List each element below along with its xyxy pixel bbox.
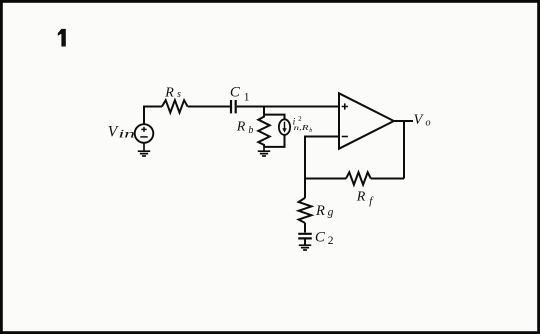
wire node to noise source top [264, 115, 285, 120]
ground under Vin [138, 143, 150, 156]
wire junction down to Rg [304, 179, 306, 198]
svg-text:2: 2 [328, 235, 334, 247]
ground under C2 [299, 245, 311, 250]
svg-text:b: b [309, 128, 312, 134]
svg-text:s: s [177, 89, 181, 100]
wire output down to feedback [403, 121, 405, 179]
resistor Rb [258, 115, 269, 147]
svg-text:R: R [356, 189, 366, 204]
op-amp minus input marker [342, 136, 348, 138]
noise current source i2n,Rb [279, 119, 290, 135]
svg-text:C: C [230, 85, 241, 101]
svg-text:g: g [328, 207, 334, 219]
wire Rf to output drop [371, 178, 404, 180]
svg-text:V: V [108, 124, 119, 141]
wire Vin top to Rs [144, 107, 162, 125]
wire minus input [305, 137, 339, 179]
svg-text:in: in [118, 126, 135, 140]
svg-text:n,R: n,R [294, 123, 309, 132]
svg-text:R: R [164, 85, 174, 100]
noise source arrow [284, 122, 286, 130]
wire feedback left segment [305, 178, 346, 180]
svg-text:R: R [236, 119, 246, 134]
capacitor C1 plates [231, 100, 236, 113]
op-amp U1 [339, 93, 394, 148]
wire C1 to op-amp + input [237, 106, 339, 108]
resistor Rs [162, 100, 188, 112]
wire op-amp output [394, 120, 413, 122]
voltage source Vin [135, 124, 154, 143]
svg-text:C: C [315, 229, 326, 245]
op-amp plus input marker [342, 103, 348, 109]
svg-text:1: 1 [244, 91, 250, 103]
capacitor C2 plates [298, 234, 312, 239]
wire Rs to C1 [188, 106, 230, 108]
Vin minus bar [140, 136, 147, 138]
wire C2 to ground [304, 240, 306, 245]
svg-text:R: R [315, 203, 325, 219]
svg-text:o: o [425, 118, 430, 129]
ground under Rb [258, 147, 270, 156]
wire node down to Rb [263, 107, 265, 115]
figure number 1 [58, 29, 66, 47]
Vin plus sign [141, 127, 146, 132]
resistor Rf [346, 172, 371, 184]
wire Rg to C2 [304, 223, 306, 233]
resistor Rg [299, 198, 312, 223]
wire noise source bottom to Rb bottom [264, 135, 285, 147]
svg-text:b: b [248, 125, 253, 136]
